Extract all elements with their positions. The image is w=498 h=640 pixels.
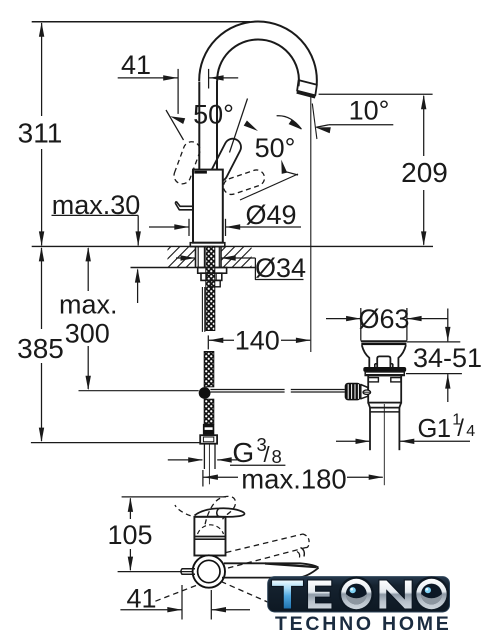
dimension 34-51 lower line [447, 374, 449, 402]
dimension 209 arrow up [421, 95, 426, 110]
side spout tube top [224, 563, 319, 567]
hose pipe wall left [203, 444, 205, 469]
dimension 140 arrow left [209, 338, 224, 343]
side body cartridge dashed [198, 525, 224, 534]
handle dashed horizontal position [221, 168, 266, 197]
dimension 41b line right [212, 609, 251, 611]
spout axis vertical line [310, 97, 312, 353]
hose pipe centerline [208, 444, 210, 485]
dimension 105 upper segment [129, 498, 131, 519]
svg-text:385: 385 [17, 333, 64, 364]
svg-text:311: 311 [18, 118, 63, 149]
side spout dark wedge [265, 564, 317, 568]
dimension dia49 line right [226, 226, 301, 228]
side spout dashed lower left [152, 586, 196, 603]
side handle dashed raised [205, 496, 235, 524]
drain knob collar [375, 363, 377, 365]
handle solid front view [208, 136, 244, 184]
dimension 140 tick [207, 335, 209, 349]
dimension 385 line lower segment [41, 363, 43, 441]
threaded shank upper [206, 246, 215, 330]
dimension 140 line right [281, 339, 310, 341]
spout riser left wall [198, 82, 200, 170]
dimension 140 arrow right [296, 338, 311, 343]
dimension 34-51 upper line [447, 309, 449, 342]
dimension G3/8 arrow right [188, 457, 203, 462]
drain knob [377, 356, 390, 367]
dimension max.30 lower line [137, 270, 139, 304]
dimension G3/8 arrow left [217, 457, 232, 462]
side spout dashed upper a [226, 534, 303, 553]
svg-text:max.: max. [59, 290, 118, 320]
dimension G3/8 line left [168, 459, 203, 461]
dimension G1 arrow right [356, 439, 371, 444]
hose fitting dark [203, 424, 214, 435]
dimension 41 arrow right [163, 75, 178, 80]
side spout dashed lower [221, 582, 271, 604]
dimension 41b arrow left [212, 607, 227, 612]
svg-text:Ø49: Ø49 [245, 200, 296, 230]
side protrusion [181, 569, 195, 575]
svg-text:209: 209 [401, 157, 448, 188]
side swivel ring outer [193, 555, 225, 587]
dimension dia34 arrow right [181, 255, 196, 260]
dimension max.300 arrow down [86, 376, 91, 391]
wire 34-51 upper extension [407, 341, 460, 343]
dimension 311 line upper segment [41, 23, 43, 116]
dimension 105 arrow down [128, 557, 133, 572]
svg-text:Ø63: Ø63 [358, 304, 409, 334]
angle arrow left 50deg [170, 116, 185, 124]
dimension 41 line right [209, 77, 238, 79]
svg-text:41: 41 [121, 50, 151, 80]
side body joint a [194, 536, 225, 538]
dimension dia63 arrow right [346, 316, 361, 321]
dimension 385 arrow up [39, 247, 44, 262]
drain dia63 ext right [406, 308, 408, 341]
dimension 105 arrow up [128, 497, 133, 512]
dimension max.30 arrow down [136, 231, 141, 246]
dimension 209 lower segment [423, 190, 425, 245]
faucet body [193, 170, 223, 243]
supply hose line b [203, 246, 205, 267]
side handle solid [195, 508, 245, 517]
svg-text:10°: 10° [349, 96, 390, 126]
leader 10deg arrow [316, 127, 331, 133]
drain tailpipe thread line [370, 411, 399, 413]
leader 10deg elbow [316, 125, 329, 128]
hose pipe wall right [214, 444, 216, 469]
wire 209 top reference [319, 93, 433, 95]
wire max.30 underline [52, 214, 139, 216]
water stream 10deg line [312, 104, 317, 140]
dimension max180 line right [347, 476, 383, 478]
angle line left 50deg [166, 110, 184, 140]
dimension dia34 line left [176, 257, 195, 259]
side handle blade [217, 508, 219, 516]
drain taper left [362, 345, 370, 367]
side handle dashed back [175, 505, 191, 516]
svg-text:140: 140 [235, 326, 280, 356]
svg-text:41: 41 [126, 584, 156, 614]
dimension max.30 arrow up [135, 268, 140, 283]
G3/8 nut [200, 435, 217, 444]
dimension 41b arrow right [167, 607, 182, 612]
shank line right [218, 246, 220, 267]
dimension max.300 upper segment [87, 248, 89, 291]
svg-text:/: / [457, 415, 464, 442]
dimension 140 line left [209, 339, 234, 341]
spout nozzle end face [297, 92, 316, 97]
dimension 34-51 arrow up [445, 374, 450, 389]
dimension dia63 line left [326, 318, 360, 320]
drain white band [365, 372, 404, 376]
pop-up rod horizontal a [210, 389, 284, 391]
dimension G3/8 line right [217, 459, 238, 461]
side body joint b [194, 538, 225, 540]
dimension max.300 arrow up [86, 247, 91, 262]
dimension 41b tick left [181, 585, 183, 620]
wire max.300 / pop-up rod reference line [79, 390, 199, 392]
locknut facet b [215, 273, 217, 280]
dimension 41 arrow left [209, 75, 224, 80]
dimension 385 line upper segment [41, 248, 43, 329]
threaded rod lower [204, 399, 214, 424]
faucet body top mark [194, 171, 207, 174]
drain white band accent [366, 374, 404, 376]
supply hose pair left [201, 287, 203, 332]
faucet base flange [190, 243, 225, 247]
drain knurl nut [345, 383, 361, 401]
side spout tube bottom [222, 568, 319, 578]
washer below deck [198, 268, 227, 274]
supply hose line a [197, 246, 199, 267]
dimension dia63 arrow left [407, 316, 422, 321]
dimension dia63 line right [407, 318, 448, 320]
drain slot right [391, 378, 401, 382]
dimension 209 arrow down [421, 231, 426, 246]
dimension 311 arrow down [39, 231, 44, 246]
drain slot left [368, 378, 378, 382]
dimension 311 line lower segment [41, 149, 43, 246]
angle arrow right 50deg [244, 121, 258, 132]
dimension 41b line left [120, 609, 181, 611]
angle arrow lower line [284, 171, 298, 175]
side spout dashed cap [303, 534, 309, 548]
svg-text:300: 300 [65, 319, 110, 349]
dimension 385 arrow down [39, 428, 44, 443]
deck hole wall left [195, 246, 197, 267]
wire 105 bottom reference [118, 571, 193, 573]
dimension max.30 drop line [137, 215, 139, 245]
handle dashed left position [172, 139, 203, 186]
locknut step [211, 280, 221, 286]
label dia34 bracket [255, 258, 303, 280]
angle line right 50deg [230, 99, 248, 153]
leader 10deg line [329, 124, 393, 126]
side swivel ring inner [198, 560, 220, 582]
counter deck top line [32, 245, 433, 247]
dimension max180 arrow left [203, 475, 218, 480]
svg-text:105: 105 [107, 520, 152, 550]
svg-text:max.180: max.180 [241, 464, 346, 495]
dimension 41 tick right [208, 69, 210, 89]
label G3/8 underline [230, 464, 285, 466]
dimension dia49 line left [149, 226, 189, 228]
side spout tip arcs [301, 548, 305, 557]
pop-up rod horizontal b [291, 389, 345, 391]
drain tailpipe wall left [369, 408, 371, 451]
dimension dia49 arrow right [174, 224, 189, 229]
dimension 41 tick left [177, 69, 179, 114]
drain tailpipe wall right [398, 408, 400, 451]
spout nozzle [297, 80, 317, 95]
drain flange top [361, 340, 407, 342]
svg-text:G1: G1 [418, 415, 451, 443]
svg-text:34-51: 34-51 [413, 343, 482, 373]
dimension dia49 tick right [225, 219, 227, 236]
wire 34-51 lower extension [406, 373, 462, 375]
wire 385 bottom reference line [31, 442, 200, 444]
dimension dia49 tick left [188, 219, 190, 236]
drain taper right [398, 345, 406, 367]
locknut below deck [201, 273, 222, 280]
deck underside line [131, 267, 256, 269]
spout inner arc [217, 39, 299, 86]
deck hole wall right [220, 246, 222, 267]
dimension max180 arrow right [369, 475, 384, 480]
locknut facet a [206, 273, 208, 280]
svg-text:Ø34: Ø34 [255, 253, 306, 283]
dimension dia34 arrow left [221, 255, 236, 260]
dimension max180 tick [202, 470, 204, 487]
dimension 41 line left [118, 77, 178, 79]
dimension G1 line left [336, 440, 370, 442]
dimension 105 lower segment [129, 549, 131, 570]
drain pivot oval [363, 390, 371, 394]
deck hatching right [205, 246, 271, 267]
drain body [368, 376, 401, 403]
svg-text:4: 4 [466, 423, 475, 440]
drain centerline [383, 404, 385, 485]
dimension dia34 line right [221, 257, 255, 259]
dimension 34-51 arrow down [445, 327, 450, 342]
drain flange dark band [361, 343, 406, 346]
threaded rod middle [204, 352, 214, 387]
logo TEONO band and letters [268, 577, 450, 612]
drain body taper [368, 403, 401, 408]
dimension max180 line left [203, 476, 238, 478]
ball joint [199, 387, 211, 399]
dimension max.300 lower segment [87, 346, 89, 389]
dimension 41b tick right [210, 590, 212, 620]
drain dia63 ext left [360, 308, 362, 341]
faucet side lever [175, 201, 193, 209]
dimension 209 upper segment [423, 96, 425, 156]
wire handle axis reference [240, 174, 298, 200]
side body [194, 517, 225, 556]
svg-text:TECHNO HOME: TECHNO HOME [275, 613, 452, 635]
angle arrow lower 50deg [281, 160, 287, 174]
dimension 311 arrow up [39, 22, 44, 37]
side spout dashed upper b [228, 548, 306, 569]
drain cone [361, 385, 368, 399]
svg-text:50°: 50° [255, 133, 296, 163]
angle arc arrow [289, 119, 302, 129]
spout outer arc [199, 21, 317, 84]
dimension G1 arrow left [400, 439, 415, 444]
wire top reference line [32, 21, 250, 23]
wire 105 top reference [122, 496, 226, 498]
dimension dia49 arrow left [226, 224, 241, 229]
drain seal flange dark [363, 367, 406, 372]
dimension G1 line right [400, 440, 470, 442]
angle arc 50deg spout [277, 116, 302, 129]
spout riser right wall [216, 81, 218, 170]
